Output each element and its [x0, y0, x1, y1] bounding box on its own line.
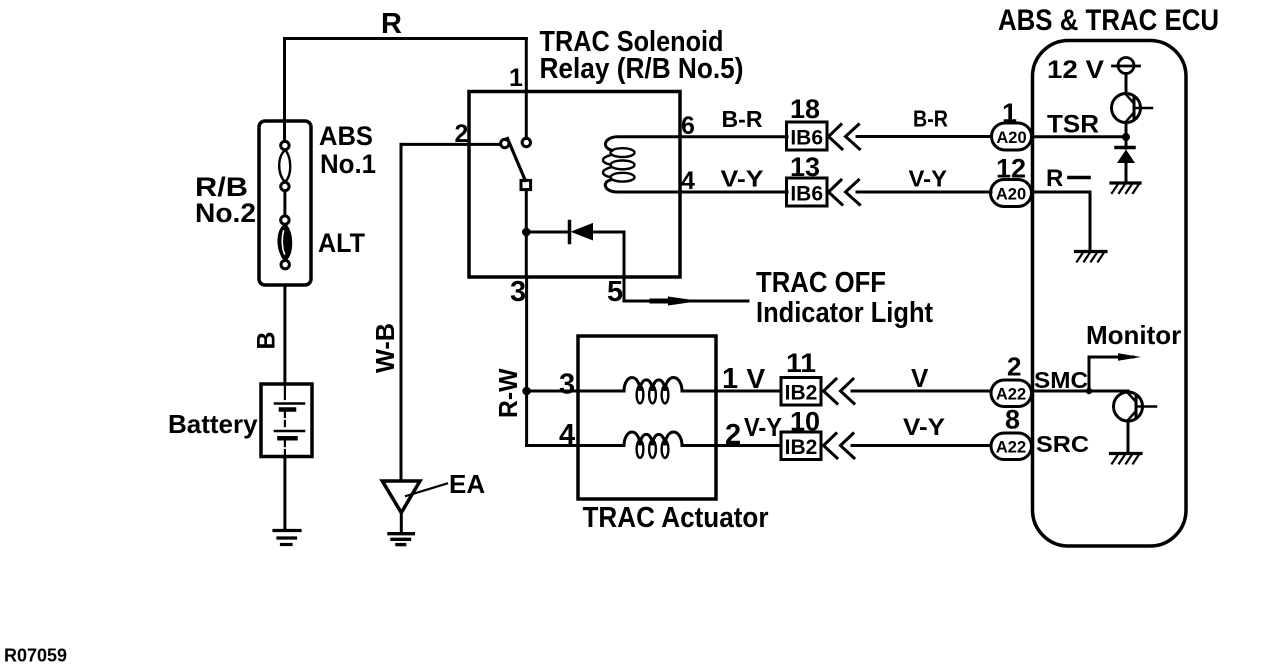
wire V-Y to ECU pin 12	[857, 191, 991, 194]
connector A20 (pin 12)	[991, 180, 1032, 207]
connector IB2 (pin 11) box	[781, 378, 821, 406]
wire SMC pin	[1033, 390, 1128, 393]
relay pin 2 wire	[401, 143, 501, 146]
svg-text:B: B	[253, 331, 281, 349]
wire transistor emitter to ground	[1127, 421, 1130, 454]
svg-text:R: R	[381, 8, 402, 40]
wire B-R to ECU pin 1	[857, 135, 992, 138]
monitor arrow	[1118, 353, 1141, 361]
connector IB6 (pin 18) box	[787, 122, 828, 150]
svg-text:1: 1	[509, 64, 523, 92]
svg-text:ABS: ABS	[319, 121, 373, 151]
svg-text:1: 1	[1002, 98, 1017, 128]
wire EA to ground	[400, 513, 403, 534]
svg-text:A22: A22	[996, 439, 1026, 457]
svg-text:3: 3	[559, 369, 575, 401]
fuse ABS No.1 element	[279, 150, 290, 182]
diode D1 in relay: wire	[526, 231, 568, 234]
actuator coil L2 (upper)	[578, 378, 716, 392]
svg-text:SRC: SRC	[1036, 431, 1089, 457]
switch contact circle (pin1 side)	[522, 138, 530, 146]
fusible link ALT terminal circles	[281, 216, 289, 224]
diode D1 cathode bar	[568, 222, 572, 243]
svg-text:V-Y: V-Y	[909, 166, 948, 192]
junction node (monitor tap)	[1086, 388, 1092, 394]
transistor Q1 (TSR driver)	[1112, 94, 1141, 123]
svg-text:IB2: IB2	[785, 436, 818, 459]
svg-text:V-Y: V-Y	[721, 166, 764, 192]
svg-text:R: R	[1046, 165, 1063, 192]
svg-text:12 V: 12 V	[1047, 56, 1104, 84]
svg-text:11: 11	[786, 348, 816, 378]
EA leader line	[406, 484, 447, 497]
svg-text:SMC: SMC	[1034, 367, 1088, 393]
power supply symbol	[1118, 58, 1134, 74]
svg-text:Relay (R/B No.5): Relay (R/B No.5)	[540, 53, 744, 85]
TRAC solenoid relay box	[469, 92, 680, 278]
diode D1 triangle	[571, 223, 594, 241]
wire diode to ground	[1125, 163, 1128, 183]
connector IB2 (pin 10) box	[781, 432, 821, 460]
svg-text:5: 5	[607, 276, 623, 308]
svg-text:V-Y: V-Y	[744, 412, 782, 442]
diode D1 wire to pin5	[593, 231, 624, 234]
svg-text:3: 3	[510, 276, 526, 308]
relay coil L1	[605, 137, 787, 151]
svg-text:2: 2	[455, 120, 469, 148]
wire actuator pin1 to IB2	[716, 390, 781, 393]
connector chevrons (13)	[829, 180, 843, 205]
wire to actuator pin 3	[527, 390, 578, 393]
svg-text:ABS & TRAC ECU: ABS & TRAC ECU	[998, 4, 1219, 37]
ground (battery earth)	[274, 529, 300, 532]
diode D2 (clamp) cathode bar	[1116, 146, 1134, 150]
svg-text:TRAC OFF: TRAC OFF	[756, 267, 886, 299]
ground (monitor)	[1111, 452, 1142, 455]
R/B No.2 box	[259, 121, 311, 285]
svg-text:EA: EA	[449, 469, 485, 499]
wire 12V to transistor	[1125, 74, 1128, 94]
junction node TSR	[1122, 133, 1130, 141]
svg-text:B-R: B-R	[722, 106, 763, 132]
svg-text:B-R: B-R	[913, 106, 948, 132]
svg-text:18: 18	[790, 94, 820, 124]
svg-text:12: 12	[996, 154, 1026, 184]
fuse ABS No.1 terminal circles	[281, 141, 289, 149]
svg-text:V: V	[911, 363, 929, 393]
svg-text:10: 10	[790, 407, 820, 437]
ground (EA earth)	[389, 532, 413, 535]
wire from R down to fuse box	[283, 39, 286, 142]
wire to actuator pin 4	[527, 444, 578, 447]
junction node (R-W split)	[522, 387, 531, 396]
relay pin 5 wire	[624, 232, 748, 301]
connector A20 (pin 1)	[992, 123, 1032, 150]
svg-text:TSR: TSR	[1047, 111, 1099, 139]
ABS & TRAC ECU box	[1033, 41, 1187, 547]
wire battery to ground	[283, 457, 286, 531]
svg-text:V: V	[747, 363, 766, 394]
svg-text:Monitor: Monitor	[1086, 320, 1181, 350]
connector chevrons (18)	[829, 125, 843, 150]
connector IB6 (pin 13) box	[787, 178, 828, 206]
svg-text:ALT: ALT	[318, 228, 365, 258]
ground (TSR clamp)	[1111, 181, 1140, 184]
junction node (diode tap)	[522, 228, 531, 237]
svg-text:TRAC Actuator: TRAC Actuator	[583, 502, 769, 534]
svg-text:IB2: IB2	[785, 382, 818, 405]
svg-text:6: 6	[681, 112, 695, 140]
svg-text:IB6: IB6	[790, 183, 823, 206]
connector A22 (pin 2)	[991, 380, 1032, 407]
diode D2 triangle	[1117, 150, 1135, 164]
wire R- pin	[1033, 192, 1090, 252]
monitor arm wire	[1089, 357, 1133, 391]
transistor Q2 (monitor)	[1114, 392, 1143, 421]
switch contact circle (pin2 side)	[501, 139, 509, 147]
svg-text:R-W: R-W	[493, 368, 523, 418]
wire B (fuse box to battery)	[283, 285, 286, 384]
svg-text:Indicator Light: Indicator Light	[756, 297, 933, 329]
svg-text:8: 8	[1005, 405, 1020, 435]
wire W-B (pin2 wire down to EA)	[400, 144, 403, 480]
actuator coil L3 (lower)	[578, 432, 716, 446]
wire transistor to TSR node	[1125, 123, 1128, 149]
svg-text:A20: A20	[996, 129, 1026, 147]
svg-text:IB6: IB6	[790, 127, 823, 150]
arrow to TRAC OFF indicator light	[668, 297, 700, 306]
wire actuator pin2 to IB2	[716, 444, 781, 447]
svg-text:V-Y: V-Y	[903, 414, 945, 441]
svg-text:A20: A20	[996, 186, 1026, 204]
connector chevrons (11)	[824, 379, 838, 404]
relay pin 3 wire down	[525, 232, 528, 277]
svg-text:4: 4	[559, 419, 575, 451]
relay pin 1 wire (R down to relay)	[525, 39, 528, 139]
wire between fuses	[283, 191, 286, 216]
fusible link ALT element	[279, 225, 291, 261]
wire square contact to pin3	[525, 190, 528, 233]
svg-text:No.2: No.2	[195, 198, 256, 228]
connector A22 (pin 8)	[991, 433, 1032, 460]
svg-text:4: 4	[681, 167, 695, 195]
svg-text:Battery: Battery	[168, 409, 258, 439]
svg-text:R07059: R07059	[4, 646, 67, 666]
switch square contact	[521, 180, 531, 189]
svg-text:A22: A22	[996, 386, 1026, 404]
switch arm	[508, 139, 526, 181]
battery cells	[284, 384, 286, 399]
svg-text:No.1: No.1	[320, 149, 376, 179]
battery box	[261, 384, 312, 457]
wire V-Y to ECU pin 8	[852, 444, 991, 447]
wire R (top horizontal)	[285, 37, 527, 40]
ground point EA triangle	[382, 481, 420, 513]
svg-text:13: 13	[790, 152, 820, 182]
wire V to ECU pin 2	[852, 390, 991, 393]
TRAC actuator box	[578, 336, 716, 499]
svg-text:W-B: W-B	[370, 323, 400, 373]
connector chevrons (10)	[824, 434, 838, 459]
svg-text:2: 2	[1007, 352, 1021, 382]
wire TSR pin	[1033, 135, 1126, 138]
ground (R-)	[1076, 250, 1107, 253]
